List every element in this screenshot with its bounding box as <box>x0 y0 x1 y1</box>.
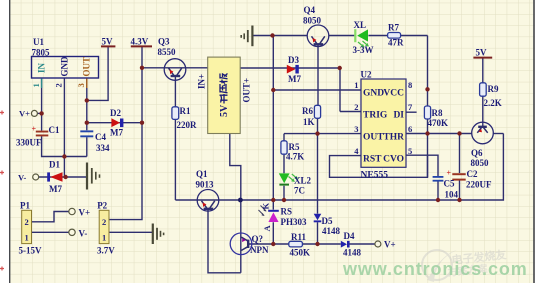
svg-text:V-: V- <box>79 229 88 239</box>
svg-text:2.2K: 2.2K <box>484 98 502 108</box>
svg-text:R9: R9 <box>488 84 499 94</box>
svg-text:R11: R11 <box>291 232 307 242</box>
svg-text:4.3V: 4.3V <box>131 37 149 47</box>
svg-text:VCC: VCC <box>383 89 404 99</box>
svg-text:GND: GND <box>60 56 70 77</box>
svg-text:RS: RS <box>281 207 293 217</box>
svg-text:R8: R8 <box>432 108 443 118</box>
svg-text:OUT: OUT <box>82 57 92 77</box>
svg-text:D3: D3 <box>288 55 299 65</box>
svg-text:D5: D5 <box>322 216 333 226</box>
svg-text:CVO: CVO <box>383 155 404 165</box>
svg-text:www.cntronics.com: www.cntronics.com <box>342 259 528 279</box>
svg-text:1K: 1K <box>303 117 315 127</box>
svg-text:NPN: NPN <box>250 245 269 255</box>
svg-text:9013: 9013 <box>196 180 215 190</box>
svg-text:220R: 220R <box>177 120 198 130</box>
svg-text:R7: R7 <box>388 23 399 33</box>
svg-text:M7: M7 <box>288 74 301 84</box>
svg-text:450K: 450K <box>290 248 311 258</box>
svg-text:104: 104 <box>445 190 459 200</box>
svg-text:47R: 47R <box>388 38 404 48</box>
svg-text:C2: C2 <box>467 169 478 179</box>
svg-text:220UF: 220UF <box>466 180 492 190</box>
svg-text:XL2: XL2 <box>294 176 312 186</box>
svg-text:DI: DI <box>393 111 404 121</box>
svg-text:XL: XL <box>354 20 367 30</box>
svg-text:Q4: Q4 <box>304 5 316 15</box>
svg-text:334: 334 <box>96 143 110 153</box>
svg-text:OUT: OUT <box>363 133 384 143</box>
svg-text:470K: 470K <box>428 118 449 128</box>
svg-text:Q1: Q1 <box>196 169 208 179</box>
svg-text:2: 2 <box>25 217 29 227</box>
svg-text:D2: D2 <box>110 108 121 118</box>
svg-text:D4: D4 <box>344 231 355 241</box>
svg-text:M7: M7 <box>49 184 62 194</box>
svg-text:1: 1 <box>25 233 29 243</box>
svg-text:4.7K: 4.7K <box>286 152 304 162</box>
svg-text:3.7V: 3.7V <box>97 246 115 256</box>
svg-text:M7: M7 <box>110 128 123 138</box>
svg-text:A: A <box>262 225 272 232</box>
svg-text:Q3: Q3 <box>158 37 170 47</box>
svg-text:V+: V+ <box>79 208 91 218</box>
svg-text:5-15V: 5-15V <box>19 246 42 256</box>
svg-text:R5: R5 <box>289 142 300 152</box>
svg-text:4148: 4148 <box>343 248 362 258</box>
svg-text:8050: 8050 <box>303 16 322 26</box>
svg-text:Q?: Q? <box>252 234 264 244</box>
svg-text:C4: C4 <box>95 132 106 142</box>
svg-text:7C: 7C <box>294 186 305 196</box>
svg-text:5: 5 <box>408 146 412 156</box>
svg-text:TRIG: TRIG <box>363 111 388 121</box>
svg-text:RST: RST <box>363 155 382 165</box>
svg-text:V+: V+ <box>19 109 30 119</box>
svg-text:NE555: NE555 <box>361 171 389 181</box>
svg-text:7805: 7805 <box>32 48 51 58</box>
svg-text:GND: GND <box>363 89 384 99</box>
svg-text:V+: V+ <box>384 240 396 250</box>
svg-text:U1: U1 <box>33 37 44 47</box>
svg-text:8550: 8550 <box>158 47 177 57</box>
svg-text:IN+: IN+ <box>197 74 207 89</box>
svg-text:D1: D1 <box>49 160 60 170</box>
svg-text:330UF: 330UF <box>16 138 42 148</box>
svg-text:5V: 5V <box>219 104 230 117</box>
svg-text:P2: P2 <box>97 201 107 211</box>
svg-text:P1: P1 <box>20 201 30 211</box>
svg-text:3: 3 <box>76 83 86 87</box>
svg-text:1: 1 <box>354 80 358 90</box>
svg-text:+: + <box>32 125 37 134</box>
svg-text:5V: 5V <box>102 37 114 47</box>
svg-text:1: 1 <box>31 83 41 87</box>
svg-text:8: 8 <box>408 80 412 90</box>
svg-text:U2: U2 <box>361 70 372 80</box>
svg-text:R6: R6 <box>302 106 313 116</box>
svg-text:+: + <box>447 169 452 178</box>
svg-text:Q6: Q6 <box>471 148 483 158</box>
svg-text:5V: 5V <box>476 48 488 58</box>
svg-text:THR: THR <box>383 133 404 143</box>
svg-text:K: K <box>261 203 271 210</box>
svg-text:C5: C5 <box>444 179 455 189</box>
svg-text:R1: R1 <box>180 106 191 116</box>
svg-text:3: 3 <box>354 124 358 134</box>
svg-text:6: 6 <box>408 124 412 134</box>
svg-text:2: 2 <box>54 83 64 87</box>
svg-text:V-: V- <box>18 173 27 183</box>
svg-text:PH303: PH303 <box>281 217 307 227</box>
svg-text:1: 1 <box>102 233 106 243</box>
svg-text:C1: C1 <box>49 125 60 135</box>
svg-text:2: 2 <box>102 217 106 227</box>
svg-text:2: 2 <box>354 102 358 112</box>
svg-text:4148: 4148 <box>322 226 341 236</box>
svg-text:IN: IN <box>37 62 47 73</box>
svg-text:OUT+: OUT+ <box>242 78 252 103</box>
svg-text:3-3W: 3-3W <box>353 45 374 55</box>
svg-text:8050: 8050 <box>471 158 490 168</box>
